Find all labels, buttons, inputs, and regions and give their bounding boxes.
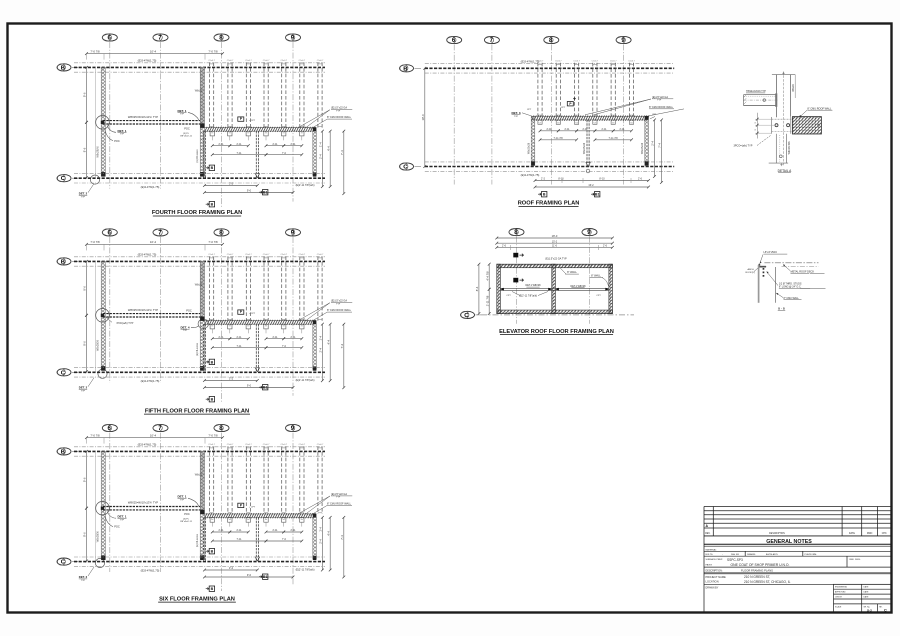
svg-text:2'-6: 2'-6 (502, 245, 507, 248)
gridline 9 elevator (589, 237, 591, 324)
svg-text:C5x6.7: C5x6.7 (263, 444, 270, 446)
dims below C roof (534, 178, 650, 182)
grid bubble 8 elevator (509, 229, 524, 237)
left vertical dimension (83, 450, 88, 510)
svg-text:S-2: S-2 (867, 608, 872, 612)
grid bubble C (57, 369, 71, 377)
hatched CMU wall band (205, 127, 316, 132)
svg-text:TYP: TYP (180, 499, 185, 501)
svg-text:CPT: CPT (506, 295, 511, 297)
svg-text:FLOOR FRAMING PLANS: FLOOR FRAMING PLANS (741, 568, 773, 572)
detail A connection plate (772, 117, 820, 134)
stub post (210, 518, 214, 527)
svg-text:6" LONG @ 24" O.C.: 6" LONG @ 24" O.C. (779, 285, 802, 288)
svg-text:REV.: REV. (705, 533, 711, 535)
joist bay dimensions (211, 143, 231, 147)
beam line C (triple dashed girder) (74, 174, 325, 183)
svg-text:9'-6: 9'-6 (83, 532, 87, 537)
grid bubble C roof (400, 163, 414, 171)
svg-text:METAL ROOF DECK: METAL ROOF DECK (791, 270, 815, 273)
svg-text:8" CMU ROOF WALL: 8" CMU ROOF WALL (327, 116, 352, 119)
svg-text:2'-11: 2'-11 (236, 143, 242, 146)
detail A CMU wall hatched (792, 117, 821, 134)
stub post (210, 131, 214, 140)
svg-text:TYP: TYP (120, 520, 125, 522)
gridline 6 roof (453, 44, 455, 184)
stub plate roof (556, 120, 560, 124)
svg-text:4'-4 7/8: 4'-4 7/8 (485, 271, 489, 281)
svg-text:7'-0 7/8: 7'-0 7/8 (208, 240, 218, 244)
svg-text:C5x6.7: C5x6.7 (263, 254, 270, 256)
masonry wall pier at grid 6 (101, 451, 105, 559)
floor joist 1 (210, 446, 214, 514)
svg-text:7'-11 7/8: 7'-11 7/8 (553, 137, 563, 140)
svg-text:7'-0: 7'-0 (282, 152, 287, 155)
svg-text:7'-0 7/8: 7'-0 7/8 (208, 49, 218, 53)
svg-text:1'-4: 1'-4 (319, 335, 323, 340)
svg-text:B: B (61, 65, 65, 71)
svg-text:W8X25=W/10'x13'¼ TYP: W8X25=W/10'x13'¼ TYP (128, 308, 158, 312)
svg-text:18'-0: 18'-0 (421, 114, 425, 121)
svg-text:(E)1.5"x22 GA: (E)1.5"x22 GA (652, 96, 668, 99)
svg-text:1'-4: 1'-4 (319, 527, 323, 532)
vertical beam below band at grid 8 bay (203, 131, 205, 178)
svg-text:GENERAL NOTES: GENERAL NOTES (766, 539, 812, 545)
svg-text:2'-11: 2'-11 (582, 128, 588, 131)
grid bubble 6 (102, 34, 117, 42)
svg-text:2'-11: 2'-11 (564, 128, 570, 131)
svg-text:DETAIL A: DETAIL A (778, 169, 793, 173)
grid bubble 8 (214, 424, 229, 432)
svg-text:8" WALL: 8" WALL (567, 271, 577, 274)
svg-text:7'-0 7/8: 7'-0 7/8 (90, 240, 100, 244)
svg-text:(E)1.5"x22 GA TYP: (E)1.5"x22 GA TYP (545, 258, 567, 261)
floor joist 5 (282, 62, 286, 127)
stub plate roof (538, 120, 542, 124)
floor joist 1 (210, 62, 214, 127)
detail A lower beam (769, 134, 791, 166)
svg-text:3PCO=(a/b) TYP: 3PCO=(a/b) TYP (734, 145, 753, 148)
stub plate roof (593, 120, 597, 124)
top dimension line (85, 433, 224, 439)
svg-text:B: B (61, 449, 65, 455)
svg-text:TYP: TYP (183, 330, 188, 332)
mid steel beam W8x25 (103, 506, 203, 508)
dimensions below C (203, 182, 259, 187)
grid bubble 8 (214, 229, 229, 237)
gridline 7 (160, 433, 162, 572)
svg-text:2'-11: 2'-11 (218, 336, 224, 339)
svg-text:(E)3-4"W(1.75): (E)3-4"W(1.75) (521, 173, 540, 177)
svg-text:10'-4: 10'-4 (150, 240, 157, 244)
left vertical dimension roof (421, 67, 426, 168)
svg-text:DATE: DATE (849, 532, 855, 535)
grid bubble 6 (102, 424, 117, 432)
plan title: FOURTH FLOOR FRAMING PLAN (152, 210, 242, 216)
floor joist 5 (282, 256, 286, 320)
joist bay dimensions (211, 529, 231, 533)
svg-text:POC: POC (114, 525, 120, 529)
svg-text:C: C (884, 609, 887, 613)
svg-text:W8x25: W8x25 (195, 473, 203, 476)
svg-text:W8x25: W8x25 (195, 89, 203, 92)
svg-text:C5x6.7: C5x6.7 (208, 60, 215, 62)
stub post (282, 131, 286, 140)
right vertical dimensions (319, 130, 324, 188)
joist bay dimensions (211, 336, 231, 340)
grid bubble 9 (286, 34, 301, 42)
svg-text:C5x6.7: C5x6.7 (299, 60, 306, 62)
hatched CMU wall right (313, 517, 317, 558)
svg-text:TYP: TYP (336, 303, 341, 305)
gray fill on wall pier above band (200, 451, 204, 513)
section marker B1 (259, 574, 268, 579)
svg-text:210 N GREEN ST, CHICAGO, IL: 210 N GREEN ST, CHICAGO, IL (744, 580, 791, 584)
column connection circle at grid 6 (96, 501, 110, 515)
svg-text:C5x6.7: C5x6.7 (263, 60, 270, 62)
svg-text:DESCRIPTION:: DESCRIPTION: (706, 569, 723, 572)
stub post (264, 131, 268, 140)
svg-text:DET. 1: DET. 1 (177, 495, 186, 499)
gridline 7 roof (491, 44, 493, 184)
svg-text:2'-11: 2'-11 (290, 143, 296, 146)
beam line B (triple dashed girder) (74, 63, 325, 72)
svg-text:2'-11: 2'-11 (218, 143, 224, 146)
svg-text:C5x6.7: C5x6.7 (537, 60, 544, 62)
svg-text:PROJECT NAME: PROJECT NAME (706, 575, 727, 579)
roof joist 2 (556, 63, 560, 117)
svg-text:7'-11: 7'-11 (236, 152, 242, 155)
svg-text:7'-4: 7'-4 (340, 343, 344, 348)
floor joist 3 (246, 256, 250, 320)
svg-text:APPROVED: APPROVED (835, 591, 846, 594)
svg-text:15'-2: 15'-2 (552, 240, 558, 243)
svg-text:C5x6.7: C5x6.7 (227, 444, 234, 446)
roof joist 5 (611, 63, 615, 117)
center beam below band (roof) (586, 120, 588, 167)
floor joist 6 (300, 62, 304, 127)
svg-text:7'-11: 7'-11 (236, 538, 242, 541)
svg-text:210 N GREEN ST,: 210 N GREEN ST, (744, 575, 770, 579)
svg-text:C5x6.7: C5x6.7 (317, 60, 324, 62)
svg-text:(E)C8-xxxxx: (E)C8-xxxxx (196, 149, 199, 163)
svg-text:2'-11: 2'-11 (290, 529, 296, 532)
svg-text:2'-11: 2'-11 (601, 128, 607, 131)
stub post (228, 131, 232, 140)
beam line B (triple dashed girder) (74, 257, 325, 266)
svg-text:2'-11: 2'-11 (290, 336, 296, 339)
svg-text:7'-0: 7'-0 (282, 345, 287, 348)
svg-text:2'-11: 2'-11 (272, 336, 278, 339)
stub post (246, 518, 250, 527)
grid bubble 8 roof (544, 36, 559, 44)
stub post (264, 324, 268, 333)
vertical beam B1 (255, 517, 257, 561)
svg-text:9'-6: 9'-6 (83, 477, 87, 482)
roof joist 6 (629, 63, 633, 117)
building edge line (95, 67, 97, 177)
svg-text:POC: POC (184, 126, 190, 130)
svg-text:C5x6.7: C5x6.7 (245, 60, 252, 62)
svg-text:PLATFORM:: PLATFORM: (805, 553, 818, 556)
column circle at C (95, 558, 104, 567)
vertical beam below band at grid 8 bay (203, 517, 205, 561)
hatched CMU wall right (313, 324, 317, 369)
svg-text:TYP: TYP (120, 134, 125, 136)
stub post (246, 324, 250, 333)
svg-text:7'-4: 7'-4 (340, 150, 344, 155)
svg-text:CPT: CPT (596, 295, 601, 297)
svg-text:C5x6.7: C5x6.7 (592, 60, 599, 62)
section marker B (206, 397, 215, 402)
svg-text:8'-10: 8'-10 (558, 178, 564, 181)
svg-text:8" CMU ROOF WALL: 8" CMU ROOF WALL (327, 503, 352, 506)
mid steel beam W8x25 (103, 120, 203, 122)
elevator top dims (495, 234, 613, 239)
svg-text:C5x6.7: C5x6.7 (227, 60, 234, 62)
CMU wall right below band (roof) (645, 116, 649, 165)
svg-text:DWN: DWN (867, 533, 873, 535)
svg-text:(E)1.5"x22 GA: (E)1.5"x22 GA (331, 493, 347, 496)
svg-text:3/8"x3x0'-11: 3/8"x3x0'-11 (180, 521, 193, 523)
svg-text:2'-2: 2'-2 (541, 178, 546, 181)
grid bubble B (57, 64, 71, 72)
detail A horizontal beam with end plate (744, 93, 779, 106)
revision table (704, 507, 891, 613)
grid bubble 9 elevator (582, 229, 597, 237)
svg-text:C5x6.7: C5x6.7 (555, 60, 562, 62)
floor joist 3 (246, 62, 250, 127)
svg-text:CPT: CPT (527, 109, 532, 111)
svg-text:W8X25=W/10'x13'¼ TYP: W8X25=W/10'x13'¼ TYP (128, 115, 158, 119)
svg-text:C5x6.7: C5x6.7 (299, 444, 306, 446)
svg-text:DRAWN BY: DRAWN BY (706, 586, 719, 589)
signature sub-table (834, 584, 892, 612)
grid bubble C (57, 175, 71, 183)
svg-text:10'-4: 10'-4 (150, 49, 157, 53)
svg-text:CPT: CPT (652, 114, 657, 116)
svg-text:W8x25x28: W8x25x28 (641, 142, 644, 154)
gridline 8 (221, 237, 223, 402)
angle L6x4 (759, 264, 766, 267)
stub post (246, 131, 250, 140)
svg-text:(E)1.5"x22 GA: (E)1.5"x22 GA (331, 300, 347, 303)
svg-text:POC(a/b) TYP: POC(a/b) TYP (117, 321, 134, 325)
beam line C (triple dashed girder) (74, 557, 325, 566)
floor joist 7 (318, 62, 322, 127)
svg-text:(E)2'-11 7/8"(a/b): (E)2'-11 7/8"(a/b) (296, 379, 315, 382)
grid bubble 7 (153, 34, 168, 42)
svg-text:2'-11: 2'-11 (218, 529, 224, 532)
stub post (264, 518, 268, 527)
grid bubble 7 roof (484, 36, 499, 44)
section marker B (206, 549, 215, 554)
gridline 7 (160, 42, 162, 189)
detail A left dims (755, 113, 777, 139)
svg-text:7'-11 7/8: 7'-11 7/8 (608, 137, 618, 140)
vertical beam B1 (255, 131, 257, 178)
floor joist 3 (246, 446, 250, 514)
svg-text:+ CPT: + CPT (249, 120, 256, 122)
svg-text:2'-4: 2'-4 (319, 539, 323, 544)
deck line (764, 262, 818, 264)
svg-text:POC: POC (184, 512, 190, 516)
svg-text:7'-11: 7'-11 (236, 345, 242, 348)
grid bubble B (57, 258, 71, 266)
svg-text:2'-11: 2'-11 (619, 128, 625, 131)
svg-text:B: B (211, 398, 214, 402)
svg-text:8" WALL: 8" WALL (591, 275, 601, 278)
grid bubble C elevator (461, 311, 475, 319)
elevator left dims (475, 263, 480, 315)
svg-text:2'-4: 2'-4 (319, 154, 323, 159)
grid bubble 9 roof (616, 36, 631, 44)
svg-text:7'-0: 7'-0 (282, 538, 287, 541)
svg-text:C5x6.7: C5x6.7 (245, 444, 252, 446)
stub plate roof (575, 120, 579, 124)
grid bubble 6 roof (447, 36, 462, 44)
right vertical dim roof (651, 119, 656, 178)
svg-text:W8x25x28: W8x25x28 (528, 142, 531, 154)
svg-text:POC: POC (114, 139, 120, 143)
svg-text:SCALE: SCALE (835, 605, 842, 608)
svg-text:PAINT:: PAINT: (706, 563, 713, 566)
svg-text:RE.: RE. (879, 606, 883, 608)
svg-text:C5x6.7: C5x6.7 (208, 254, 215, 256)
svg-text:DET. 4: DET. 4 (180, 325, 189, 329)
stub plate roof (629, 120, 633, 124)
section marker B (206, 359, 215, 364)
svg-text:W8x28(N): W8x28(N) (96, 531, 99, 542)
vertical beam below band at grid 8 bay (203, 324, 205, 372)
svg-text:C5x6.7: C5x6.7 (628, 60, 635, 62)
svg-text:W8x28(N): W8x28(N) (96, 146, 99, 157)
svg-text:8" CMU ROOF WALL: 8" CMU ROOF WALL (649, 106, 674, 109)
svg-text:DRAWN:: DRAWN: (747, 553, 756, 556)
plan title: ROOF FRAMING PLAN (518, 201, 580, 207)
grid bubble 7 (153, 424, 168, 432)
svg-text:8" CMU ROOF WALL: 8" CMU ROOF WALL (807, 107, 832, 110)
svg-text:(E)3-4"W(1.75): (E)3-4"W(1.75) (141, 185, 160, 189)
svg-text:FOURTH FLOOR FRAMING PLAN: FOURTH FLOOR FRAMING PLAN (152, 210, 242, 216)
svg-text:(E)2'-11 7/8"(a/b): (E)2'-11 7/8"(a/b) (296, 569, 315, 572)
svg-text:DET.1 W8X28: DET.1 W8X28 (570, 285, 586, 288)
masonry wall pier left of joist bay (200, 67, 204, 176)
hatched CMU roof wall band (531, 115, 649, 120)
dimensions below C (203, 566, 259, 571)
svg-text:DATE: DATE (864, 586, 870, 589)
svg-text:9'-6: 9'-6 (83, 341, 87, 346)
svg-text:7'-0 7/8: 7'-0 7/8 (90, 49, 100, 53)
svg-text:C5x6.7: C5x6.7 (573, 60, 580, 62)
svg-text:TYP: TYP (657, 100, 662, 102)
svg-text:(E)C8-xxxxx: (E)C8-xxxxx (196, 342, 199, 356)
svg-text:C5x6.7: C5x6.7 (281, 444, 288, 446)
svg-text:ENGINEER/A: ENGINEER/A (835, 585, 847, 588)
svg-text:DET. 2: DET. 2 (79, 575, 88, 579)
floor joist 7 (318, 446, 322, 514)
svg-text:(E)3-4"W(1.75): (E)3-4"W(1.75) (138, 59, 157, 63)
svg-text:HSS2x2x3/16 TYP: HSS2x2x3/16 TYP (746, 90, 766, 93)
svg-text:(E)3-4"W(1.75): (E)3-4"W(1.75) (138, 253, 157, 257)
svg-text:18'-0: 18'-0 (552, 234, 558, 238)
plan title: SIX FLOOR FRAMING PLAN (158, 596, 236, 602)
CMU wall lines (758, 265, 760, 303)
floor joist 6 (300, 446, 304, 514)
svg-text:(E)C8-xxxxx: (E)C8-xxxxx (196, 533, 199, 547)
svg-text:2'-11: 2'-11 (236, 336, 242, 339)
svg-text:8'-10: 8'-10 (599, 178, 605, 181)
svg-text:2'-4: 2'-4 (319, 347, 323, 352)
grid bubble C (57, 558, 71, 566)
floor joist 5 (282, 446, 286, 514)
svg-text:C5x6.7: C5x6.7 (227, 254, 234, 256)
svg-text:11'-6: 11'-6 (552, 245, 558, 248)
svg-text:3/8"x3x0'-11: 3/8"x3x0'-11 (180, 135, 193, 137)
svg-text:ONE COAT OF SHOP PRIMER U.N.O.: ONE COAT OF SHOP PRIMER U.N.O. (731, 563, 790, 567)
svg-text:2'-11: 2'-11 (546, 128, 552, 131)
svg-text:DET. 2: DET. 2 (79, 192, 88, 196)
gridline 6 (109, 237, 111, 383)
stub post (282, 518, 286, 527)
gridline 9 (292, 42, 294, 202)
svg-text:(E)3-4"W(1.75): (E)3-4"W(1.75) (141, 379, 160, 383)
svg-text:C5x6.7: C5x6.7 (245, 254, 252, 256)
svg-text:ASTM A325: ASTM A325 (766, 553, 778, 556)
dimensions below C (203, 377, 259, 382)
left vertical dimension (83, 66, 88, 124)
gray fill on wall pier above band (200, 67, 204, 127)
svg-text:C5x6.7: C5x6.7 (208, 444, 215, 446)
svg-text:7'-0 7/8: 7'-0 7/8 (90, 433, 100, 437)
B markers elevator (513, 253, 518, 258)
elevator shaft walls (hatched) (497, 264, 613, 313)
grid bubble B roof (400, 65, 414, 73)
svg-text:4'-4: 4'-4 (326, 146, 330, 151)
masonry wall pier at grid 6 (101, 67, 105, 176)
CMU wall left below band (roof) (531, 116, 535, 165)
svg-text:2'-11: 2'-11 (236, 529, 242, 532)
building edge line (95, 451, 97, 561)
hatched CMU wall band (205, 320, 316, 325)
svg-text:9'-0: 9'-0 (247, 189, 252, 193)
section marker B1 (259, 190, 268, 195)
svg-text:MATERIAL:: MATERIAL: (706, 548, 718, 551)
building edge line (95, 261, 97, 371)
top dimension line (85, 240, 224, 246)
svg-text:2'-11: 2'-11 (272, 529, 278, 532)
gridline 8 (221, 433, 223, 591)
svg-text:8" CMU WALL: 8" CMU WALL (784, 297, 800, 300)
gridline 7 (160, 237, 162, 383)
gridline 9 (292, 237, 294, 396)
svg-text:(E)1.5"x22 GA: (E)1.5"x22 GA (331, 107, 347, 110)
svg-text:W8x28: W8x28 (792, 84, 795, 92)
svg-text:POC: POC (186, 308, 192, 312)
svg-text:10'-4: 10'-4 (150, 433, 157, 437)
svg-text:ELEVATOR ROOF FLOOR FRAMING PL: ELEVATOR ROOF FLOOR FRAMING PLAN (499, 329, 614, 335)
svg-text:W8X28=W8: W8X28=W8 (788, 141, 791, 154)
grid bubble 8 (214, 34, 229, 42)
svg-text:7'-4: 7'-4 (658, 143, 662, 148)
beam line B roof (triple dashed girder) (425, 64, 674, 73)
joist bay dims roof (539, 128, 560, 132)
svg-text:LOCATION: LOCATION (706, 580, 719, 584)
masonry wall pier left of joist bay (200, 261, 204, 370)
detail A vertical beam W8 (772, 72, 795, 167)
svg-text:L6"x4"x5/16: L6"x4"x5/16 (764, 251, 778, 254)
svg-text:C5x6.7: C5x6.7 (610, 60, 617, 62)
